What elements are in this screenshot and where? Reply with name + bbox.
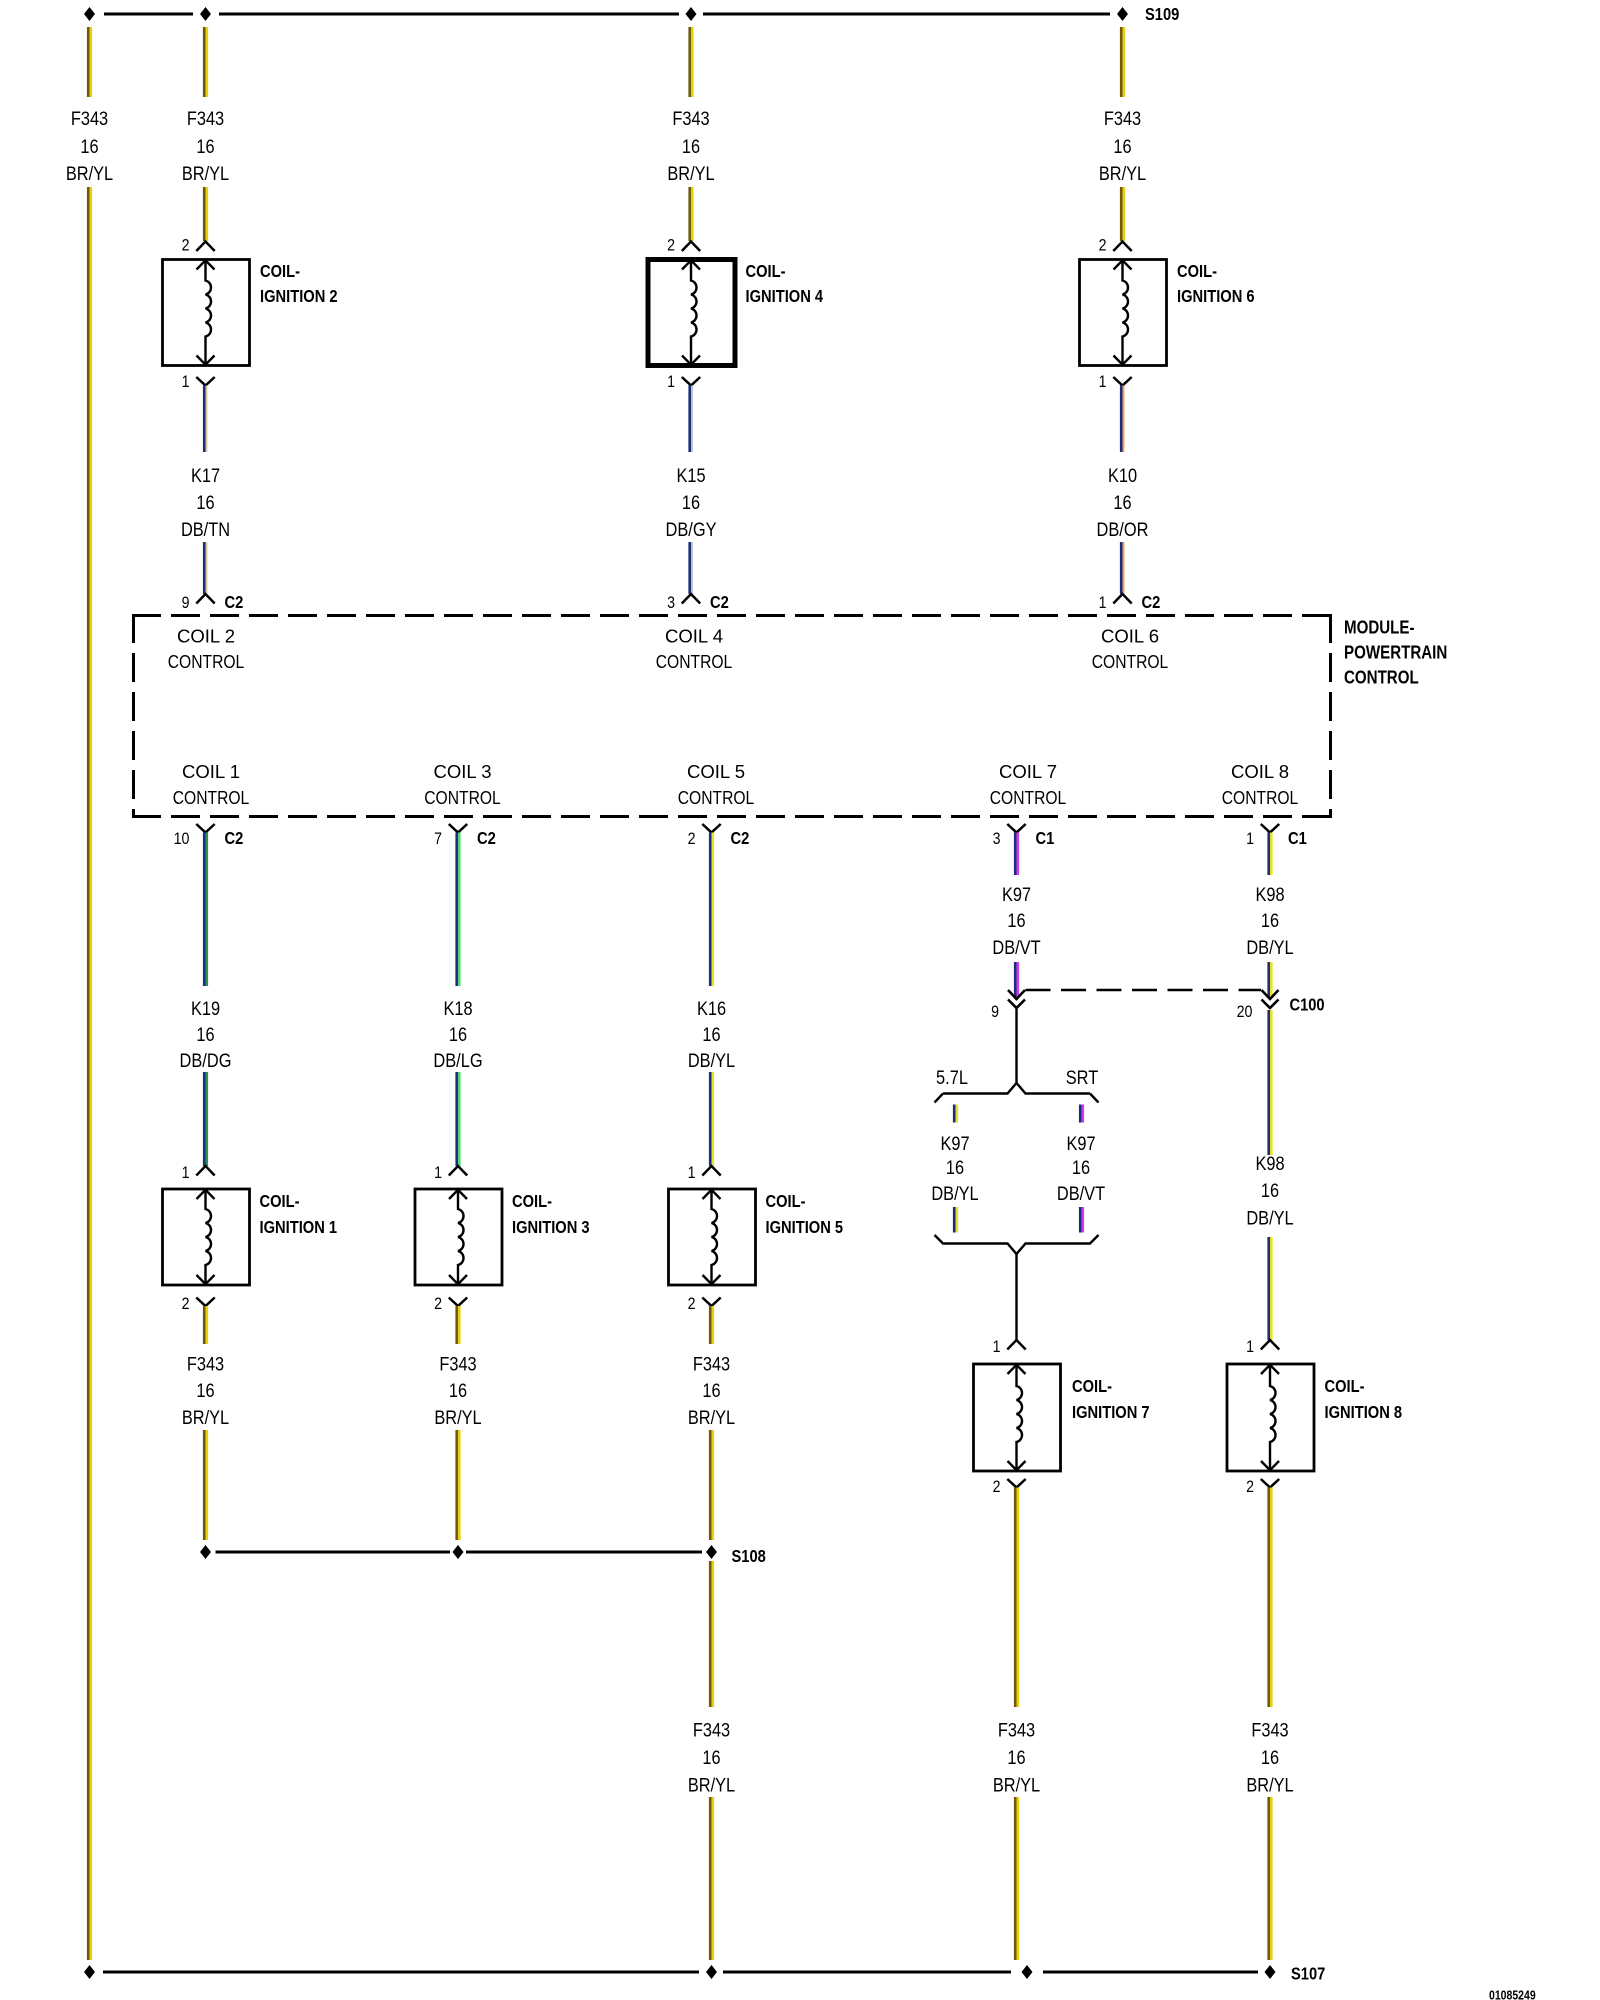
svg-text:F343: F343 xyxy=(998,1719,1035,1741)
svg-text:K16: K16 xyxy=(697,998,726,1020)
wire F343 16 BR/YL to coil 4 upper segment xyxy=(688,27,691,97)
svg-text:COIL 5: COIL 5 xyxy=(687,761,745,782)
pin 2 connector of coil 2 xyxy=(196,242,214,252)
svg-text:DB/GY: DB/GY xyxy=(666,519,717,541)
svg-text:K17: K17 xyxy=(191,465,220,487)
svg-text:IGNITION 8: IGNITION 8 xyxy=(1325,1402,1403,1422)
svg-text:16: 16 xyxy=(1113,492,1131,514)
svg-text:IGNITION 6: IGNITION 6 xyxy=(1177,286,1255,306)
svg-text:S107: S107 xyxy=(1291,1964,1325,1984)
svg-text:1: 1 xyxy=(182,1163,190,1182)
svg-text:3: 3 xyxy=(993,829,1001,848)
svg-text:K97: K97 xyxy=(1066,1133,1095,1155)
svg-text:2: 2 xyxy=(434,1294,442,1313)
svg-text:16: 16 xyxy=(196,492,214,514)
svg-text:16: 16 xyxy=(449,1380,467,1402)
wire F343 16 BR/YL from coil 5 pin 2 xyxy=(709,1306,712,1344)
svg-text:2: 2 xyxy=(182,236,190,255)
svg-text:IGNITION 4: IGNITION 4 xyxy=(746,286,824,306)
wire K98 segment into connector C100 pin 20 xyxy=(1267,962,1270,997)
svg-text:SRT: SRT xyxy=(1066,1067,1099,1089)
wire from option merge to coil 7 pin 1 xyxy=(1015,1254,1017,1340)
svg-text:3: 3 xyxy=(667,593,675,612)
pin 1 connector of coil 8 xyxy=(1261,1340,1279,1350)
wire F343 16 BR/YL from coil 8 pin 2 xyxy=(1267,1488,1270,1708)
svg-text:BR/YL: BR/YL xyxy=(66,163,113,185)
svg-text:F343: F343 xyxy=(187,1353,224,1375)
wire F343 segment into coil 2 pin 2 xyxy=(203,187,206,241)
svg-text:COIL 3: COIL 3 xyxy=(434,761,492,782)
coil-ignition 2 component box xyxy=(163,260,250,366)
svg-text:DB/VT: DB/VT xyxy=(992,937,1040,959)
svg-text:2: 2 xyxy=(667,236,675,255)
svg-text:IGNITION 3: IGNITION 3 xyxy=(512,1217,590,1237)
PCM pin 1 C1 connector for coil 8 control xyxy=(1261,824,1279,833)
svg-text:F343: F343 xyxy=(693,1353,730,1375)
svg-text:F343: F343 xyxy=(693,1719,730,1741)
svg-text:C1: C1 xyxy=(1036,828,1055,848)
coil-ignition 6 component box xyxy=(1080,260,1167,366)
wire F343 segment to splice S107 column F xyxy=(1014,1797,1017,1960)
svg-text:BR/YL: BR/YL xyxy=(688,1407,735,1429)
pin 2 connector of coil 1 xyxy=(196,1298,214,1307)
connector C100 dashed interface line xyxy=(1026,989,1262,992)
svg-text:7: 7 xyxy=(434,829,442,848)
svg-text:K97: K97 xyxy=(1002,884,1031,906)
wire F343 segment to splice S107 column E xyxy=(709,1797,712,1960)
PCM pin 3 C1 connector for coil 7 control xyxy=(1007,824,1025,833)
svg-text:CONTROL: CONTROL xyxy=(656,651,733,672)
PCM pin 3 C2 connector xyxy=(682,594,700,604)
svg-text:1: 1 xyxy=(688,1163,696,1182)
svg-text:IGNITION 7: IGNITION 7 xyxy=(1072,1402,1150,1422)
wire from C100 pin 9 to 5.7L/SRT option split xyxy=(1015,1008,1017,1083)
PCM pin 2 C2 connector for coil 5 control xyxy=(702,824,720,833)
junction diamond S108 at column B xyxy=(200,1545,211,1559)
svg-text:16: 16 xyxy=(682,136,700,158)
wire F343 16 BR/YL column A long segment to S107 xyxy=(87,187,90,1960)
svg-text:2: 2 xyxy=(688,1294,696,1313)
wire F343 16 BR/YL to coil 2 upper segment xyxy=(203,27,206,97)
junction diamond S107 at column H xyxy=(1265,1965,1276,1979)
PCM pin 10 C2 connector for coil 1 control xyxy=(196,824,214,833)
wire stub K97 16 DB/YL (5.7L option) xyxy=(953,1105,956,1123)
svg-text:COIL-: COIL- xyxy=(1072,1376,1112,1396)
wire F343 segment to splice S107 column H xyxy=(1267,1797,1270,1960)
junction diamond S109 at column D xyxy=(686,7,697,21)
wire K98 16 DB/YL from PCM xyxy=(1267,833,1270,876)
svg-text:5.7L: 5.7L xyxy=(936,1067,968,1089)
svg-text:16: 16 xyxy=(1261,1747,1279,1769)
svg-text:BR/YL: BR/YL xyxy=(182,1407,229,1429)
svg-text:DB/TN: DB/TN xyxy=(181,519,230,541)
wire K98 16 DB/YL below C100 xyxy=(1267,1010,1270,1155)
pin 2 connector of coil 7 xyxy=(1007,1479,1025,1488)
splice S108 bus wire xyxy=(216,1551,451,1554)
junction diamond S107 at column A xyxy=(84,1965,95,1979)
svg-text:9: 9 xyxy=(991,1002,999,1021)
svg-text:DB/VT: DB/VT xyxy=(1057,1183,1105,1205)
wire K98 segment into coil 8 pin 1 xyxy=(1267,1237,1270,1340)
svg-text:1: 1 xyxy=(993,1337,1001,1356)
svg-text:2: 2 xyxy=(993,1477,1001,1496)
svg-text:9: 9 xyxy=(182,593,190,612)
svg-text:1: 1 xyxy=(1099,593,1107,612)
wire K18 16 DB/LG from PCM xyxy=(455,833,458,987)
svg-text:DB/OR: DB/OR xyxy=(1097,519,1149,541)
wire K19 16 DB/DG from PCM xyxy=(203,833,206,987)
wire K15 16 DB/GY from coil 4 pin 1 xyxy=(688,386,691,453)
svg-text:COIL 7: COIL 7 xyxy=(999,761,1057,782)
svg-text:16: 16 xyxy=(1261,1180,1279,1202)
svg-text:1: 1 xyxy=(1246,1337,1254,1356)
module-powertrain control (PCM) dashed box xyxy=(132,614,1332,818)
splice S107 bus wire xyxy=(103,1971,699,1974)
svg-text:C1: C1 xyxy=(1288,828,1307,848)
svg-text:CONTROL: CONTROL xyxy=(990,787,1067,808)
junction diamond S107 at column E xyxy=(706,1965,717,1979)
pin 1 connector of coil 5 xyxy=(702,1166,720,1176)
svg-text:DB/YL: DB/YL xyxy=(931,1183,978,1205)
splice S109 bus wire xyxy=(104,13,193,16)
wire stub K97 16 DB/VT (SRT option) xyxy=(1079,1105,1082,1123)
svg-text:F343: F343 xyxy=(1104,108,1141,130)
svg-text:16: 16 xyxy=(1007,910,1025,932)
svg-text:POWERTRAIN: POWERTRAIN xyxy=(1344,642,1447,662)
5.7L / SRT option merge bracket (bottom) xyxy=(935,1235,1099,1254)
svg-text:DB/YL: DB/YL xyxy=(688,1050,735,1072)
svg-text:20: 20 xyxy=(1237,1002,1253,1021)
svg-text:16: 16 xyxy=(1261,910,1279,932)
svg-text:F343: F343 xyxy=(187,108,224,130)
5.7L / SRT option split bracket (top) xyxy=(943,1083,1090,1094)
C100 pin 20 inline connector arrow xyxy=(1262,990,1279,999)
svg-text:F343: F343 xyxy=(1251,1719,1288,1741)
svg-text:1: 1 xyxy=(667,372,675,391)
svg-text:BR/YL: BR/YL xyxy=(1246,1774,1293,1796)
svg-text:16: 16 xyxy=(1113,136,1131,158)
pin 2 connector of coil 8 xyxy=(1261,1479,1279,1488)
svg-text:C2: C2 xyxy=(225,828,244,848)
svg-text:COIL-: COIL- xyxy=(1325,1376,1365,1396)
svg-text:BR/YL: BR/YL xyxy=(667,163,714,185)
svg-text:CONTROL: CONTROL xyxy=(424,787,501,808)
wire K18 segment into coil 3 pin 1 xyxy=(455,1072,458,1166)
svg-text:F343: F343 xyxy=(672,108,709,130)
svg-text:1: 1 xyxy=(434,1163,442,1182)
svg-text:DB/YL: DB/YL xyxy=(1246,937,1293,959)
pin 1 connector of coil 6 xyxy=(1113,377,1131,386)
wire F343 16 BR/YL from coil 7 pin 2 xyxy=(1014,1488,1017,1708)
svg-text:COIL-: COIL- xyxy=(746,261,786,281)
svg-text:1: 1 xyxy=(1246,829,1254,848)
wire K10 16 DB/OR from coil 6 pin 1 xyxy=(1120,386,1123,453)
svg-text:COIL-: COIL- xyxy=(1177,261,1217,281)
svg-text:2: 2 xyxy=(1246,1477,1254,1496)
coil-ignition 5 component box xyxy=(669,1189,756,1285)
pin 1 connector of coil 3 xyxy=(449,1166,467,1176)
wire K97 segment into connector C100 pin 9 xyxy=(1014,962,1017,997)
svg-text:BR/YL: BR/YL xyxy=(182,163,229,185)
svg-text:CONTROL: CONTROL xyxy=(1344,667,1419,687)
pin 2 connector of coil 5 xyxy=(702,1298,720,1307)
svg-text:F343: F343 xyxy=(439,1353,476,1375)
wire K17 16 DB/TN from coil 2 pin 1 xyxy=(203,386,206,453)
svg-text:2: 2 xyxy=(688,829,696,848)
svg-text:K19: K19 xyxy=(191,998,220,1020)
svg-text:16: 16 xyxy=(80,136,98,158)
svg-text:16: 16 xyxy=(196,1380,214,1402)
svg-text:DB/DG: DB/DG xyxy=(180,1050,232,1072)
svg-text:16: 16 xyxy=(449,1024,467,1046)
svg-text:16: 16 xyxy=(1007,1747,1025,1769)
wire F343 16 BR/YL from coil 3 pin 2 xyxy=(455,1306,458,1344)
svg-text:2: 2 xyxy=(182,1294,190,1313)
C100 pin 9 inline connector arrow xyxy=(1008,990,1025,999)
svg-text:COIL 4: COIL 4 xyxy=(665,626,723,647)
svg-text:C2: C2 xyxy=(731,828,750,848)
junction diamond S108 at column C xyxy=(453,1545,464,1559)
wire F343 segment to splice S108 xyxy=(455,1430,458,1540)
svg-text:CONTROL: CONTROL xyxy=(678,787,755,808)
coil-ignition 3 component box xyxy=(415,1189,502,1285)
svg-text:16: 16 xyxy=(702,1747,720,1769)
coil-ignition 7 component box xyxy=(974,1364,1061,1471)
pin 1 connector of coil 7 xyxy=(1007,1340,1025,1350)
wire K16 segment into coil 5 pin 1 xyxy=(709,1072,712,1166)
svg-text:IGNITION 5: IGNITION 5 xyxy=(766,1217,844,1237)
junction diamond S108 at column E xyxy=(706,1545,717,1559)
svg-text:01085249: 01085249 xyxy=(1489,1988,1536,2000)
svg-text:CONTROL: CONTROL xyxy=(173,787,250,808)
pin 1 connector of coil 4 xyxy=(682,377,700,386)
svg-text:IGNITION 2: IGNITION 2 xyxy=(260,286,338,306)
wire K97 16 DB/VT from PCM xyxy=(1014,833,1017,876)
wire K17 segment into PCM pin 9 xyxy=(203,542,206,594)
svg-text:K15: K15 xyxy=(676,465,705,487)
coil-ignition 1 component box xyxy=(163,1189,250,1285)
pin 2 connector of coil 6 xyxy=(1113,242,1131,252)
svg-text:COIL-: COIL- xyxy=(260,261,300,281)
wire K10 segment into PCM pin 1 xyxy=(1120,542,1123,594)
svg-text:IGNITION 1: IGNITION 1 xyxy=(260,1217,338,1237)
wire K15 segment into PCM pin 3 xyxy=(688,542,691,594)
svg-text:CONTROL: CONTROL xyxy=(1092,651,1169,672)
wire F343 16 BR/YL from coil 1 pin 2 xyxy=(203,1306,206,1344)
svg-text:2: 2 xyxy=(1099,236,1107,255)
wire stub lower (SRT option) xyxy=(1079,1207,1082,1233)
svg-text:K98: K98 xyxy=(1255,884,1284,906)
svg-text:COIL 8: COIL 8 xyxy=(1231,761,1289,782)
junction diamond S107 at column F xyxy=(1022,1965,1033,1979)
svg-text:F343: F343 xyxy=(71,108,108,130)
junction diamond S109 at column G xyxy=(1117,7,1128,21)
svg-text:C2: C2 xyxy=(1142,592,1161,612)
svg-text:BR/YL: BR/YL xyxy=(993,1774,1040,1796)
pin 1 connector of coil 2 xyxy=(196,377,214,386)
svg-text:K97: K97 xyxy=(940,1133,969,1155)
junction diamond S109 at column B xyxy=(200,7,211,21)
svg-text:K10: K10 xyxy=(1108,465,1137,487)
PCM pin 9 C2 connector xyxy=(196,594,214,604)
svg-text:C2: C2 xyxy=(225,592,244,612)
svg-text:16: 16 xyxy=(196,1024,214,1046)
svg-text:K18: K18 xyxy=(443,998,472,1020)
pin 1 connector of coil 1 xyxy=(196,1166,214,1176)
svg-text:1: 1 xyxy=(182,372,190,391)
svg-text:CONTROL: CONTROL xyxy=(168,651,245,672)
svg-text:DB/YL: DB/YL xyxy=(1246,1207,1293,1229)
svg-text:C2: C2 xyxy=(477,828,496,848)
svg-text:S109: S109 xyxy=(1145,4,1180,24)
svg-text:CONTROL: CONTROL xyxy=(1222,787,1299,808)
svg-text:C100: C100 xyxy=(1290,995,1325,1015)
svg-text:16: 16 xyxy=(702,1380,720,1402)
coil-ignition 4 component box xyxy=(648,260,735,366)
wire F343 segment to splice S108 xyxy=(709,1430,712,1540)
coil-ignition 8 component box xyxy=(1227,1364,1314,1471)
pin 2 connector of coil 3 xyxy=(449,1298,467,1307)
wire F343 segment into coil 6 pin 2 xyxy=(1120,187,1123,241)
svg-text:BR/YL: BR/YL xyxy=(1099,163,1146,185)
svg-text:16: 16 xyxy=(682,492,700,514)
svg-text:BR/YL: BR/YL xyxy=(688,1774,735,1796)
wire F343 16 BR/YL column A upper segment xyxy=(87,27,90,97)
svg-text:16: 16 xyxy=(702,1024,720,1046)
svg-text:COIL-: COIL- xyxy=(260,1191,300,1211)
svg-text:COIL 6: COIL 6 xyxy=(1101,626,1159,647)
pin 2 connector of coil 4 xyxy=(682,242,700,252)
svg-text:10: 10 xyxy=(174,829,190,848)
svg-text:COIL-: COIL- xyxy=(512,1191,552,1211)
wire F343 segment to splice S108 xyxy=(203,1430,206,1540)
wire K19 segment into coil 1 pin 1 xyxy=(203,1072,206,1166)
PCM pin 7 C2 connector for coil 3 control xyxy=(449,824,467,833)
svg-text:BR/YL: BR/YL xyxy=(434,1407,481,1429)
svg-text:16: 16 xyxy=(946,1157,964,1179)
svg-text:16: 16 xyxy=(1072,1157,1090,1179)
wire F343 segment into coil 4 pin 2 xyxy=(688,187,691,241)
wire F343 16 BR/YL from S108 down column E xyxy=(709,1561,712,1707)
svg-text:K98: K98 xyxy=(1255,1153,1284,1175)
junction diamond S109 at column A xyxy=(84,7,95,21)
wire stub lower (5.7L option) xyxy=(953,1207,956,1233)
PCM pin 1 C2 connector xyxy=(1113,594,1131,604)
svg-text:COIL-: COIL- xyxy=(766,1191,806,1211)
wire F343 16 BR/YL to coil 6 upper segment xyxy=(1120,27,1123,97)
wire K16 16 DB/YL from PCM xyxy=(709,833,712,987)
svg-text:COIL 2: COIL 2 xyxy=(177,626,235,647)
svg-text:C2: C2 xyxy=(710,592,729,612)
svg-text:MODULE-: MODULE- xyxy=(1344,617,1415,637)
svg-text:S108: S108 xyxy=(732,1546,767,1566)
svg-text:DB/LG: DB/LG xyxy=(433,1050,482,1072)
svg-text:16: 16 xyxy=(196,136,214,158)
svg-text:1: 1 xyxy=(1099,372,1107,391)
svg-text:COIL 1: COIL 1 xyxy=(182,761,240,782)
